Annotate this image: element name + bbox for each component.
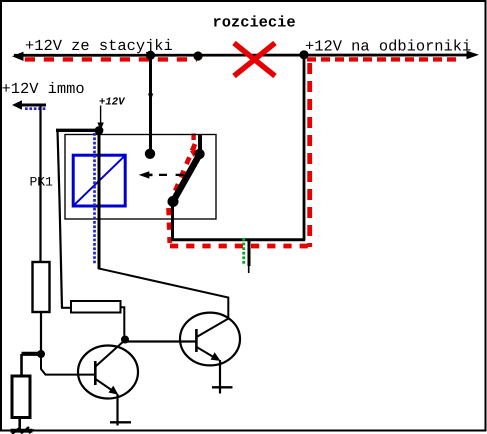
cut mark X rozciecie bbox=[234, 43, 275, 76]
relay coil (blue square with diagonal) bbox=[73, 155, 125, 206]
wire main +12V bus bbox=[14, 54, 470, 57]
blue dotted immo hint bbox=[25, 107, 47, 110]
ground Q2 bbox=[212, 386, 233, 388]
transistor Q1 bbox=[78, 346, 138, 399]
label +12V immo bbox=[2, 80, 85, 98]
svg-text:rozciecie: rozciecie bbox=[213, 13, 296, 31]
relay pole contact dot bbox=[145, 149, 155, 159]
wire immo terminal down to R1 bbox=[39, 106, 41, 262]
green dotted ground path hint bbox=[242, 238, 245, 264]
current direction arrow on wire A bbox=[148, 94, 153, 102]
label +12V (coil supply) bbox=[99, 96, 126, 108]
label +12V ze stacyjki bbox=[25, 37, 173, 55]
wire node A down to relay pole bbox=[149, 55, 152, 151]
node A junction (stacyjka to relay pole) bbox=[146, 51, 155, 60]
node C junction (na odbiorniki branch) bbox=[299, 50, 308, 59]
chassis ground bbox=[11, 429, 33, 433]
terminal +12V immo bbox=[12, 100, 22, 109]
ground Q1 bbox=[110, 421, 131, 423]
terminal arrow right (na odbiorniki) bbox=[467, 51, 480, 60]
svg-text:+12V immo: +12V immo bbox=[2, 80, 85, 98]
wire Q1 emitter down bbox=[116, 394, 118, 426]
red highlight path right vertical bbox=[307, 63, 312, 247]
red highlight path bottom horizontal bbox=[170, 244, 308, 249]
relay contact arm bbox=[173, 155, 200, 202]
wire switch bottom contact to bypass bbox=[171, 201, 174, 241]
red dashed arrow into switch bbox=[191, 134, 195, 141]
resistor R1 (vertical) bbox=[33, 262, 50, 312]
wire coil node down through coil bbox=[98, 131, 101, 270]
relay top contact dot bbox=[194, 149, 204, 159]
wire node C down to bypass bbox=[303, 55, 306, 240]
resistor R2 (vertical) bbox=[12, 376, 30, 418]
svg-text:+12V: +12V bbox=[99, 96, 126, 108]
red highlight path left bus bbox=[25, 57, 197, 61]
svg-text:+12V na odbiorniki: +12V na odbiorniki bbox=[305, 38, 471, 56]
node E (Q1 collector junction) bbox=[121, 336, 129, 344]
red highlight path right bus bbox=[307, 57, 460, 61]
resistor R3 (horizontal) bbox=[71, 301, 121, 313]
wire stub node D left bbox=[22, 352, 42, 356]
wire coil node left and down to R3 bbox=[56, 129, 99, 132]
label rozciecie bbox=[213, 13, 296, 31]
node coil feed bbox=[95, 126, 104, 135]
terminal arrow left (ze stacyjki) bbox=[12, 52, 24, 61]
relay PK1 box bbox=[65, 135, 216, 220]
wire switch top contact up to box edge bbox=[198, 135, 202, 155]
red highlight path along switch arm bbox=[168, 144, 195, 208]
wire R1 down to node D bbox=[40, 312, 42, 354]
transistor Q2 bbox=[180, 313, 240, 366]
node B junction (switch top contact) bbox=[193, 51, 202, 60]
wire stub down to R2 bbox=[20, 354, 23, 376]
wire R2 down to ground bbox=[18, 418, 21, 431]
blue dotted coil current hint bbox=[93, 133, 96, 264]
wire +12V label down to coil node bbox=[100, 106, 102, 125]
wire bypass bottom horizontal bbox=[173, 238, 306, 241]
actuation dashed arrow bbox=[159, 174, 184, 176]
relay bottom contact dot bbox=[168, 196, 179, 207]
wire stub down from bypass (ground hint) bbox=[248, 240, 251, 266]
label PK1 bbox=[30, 175, 54, 190]
node D (base divider junction) bbox=[37, 350, 45, 358]
wire R3 right end down to node E bbox=[121, 307, 125, 336]
wire Q2 emitter down bbox=[219, 360, 221, 394]
wire coil bottom diagonal to Q2 collector bbox=[98, 268, 228, 318]
wire node E to Q2 base bbox=[125, 340, 196, 342]
label +12V na odbiorniki bbox=[305, 38, 471, 56]
wire node D to Q1 base bbox=[41, 355, 95, 375]
